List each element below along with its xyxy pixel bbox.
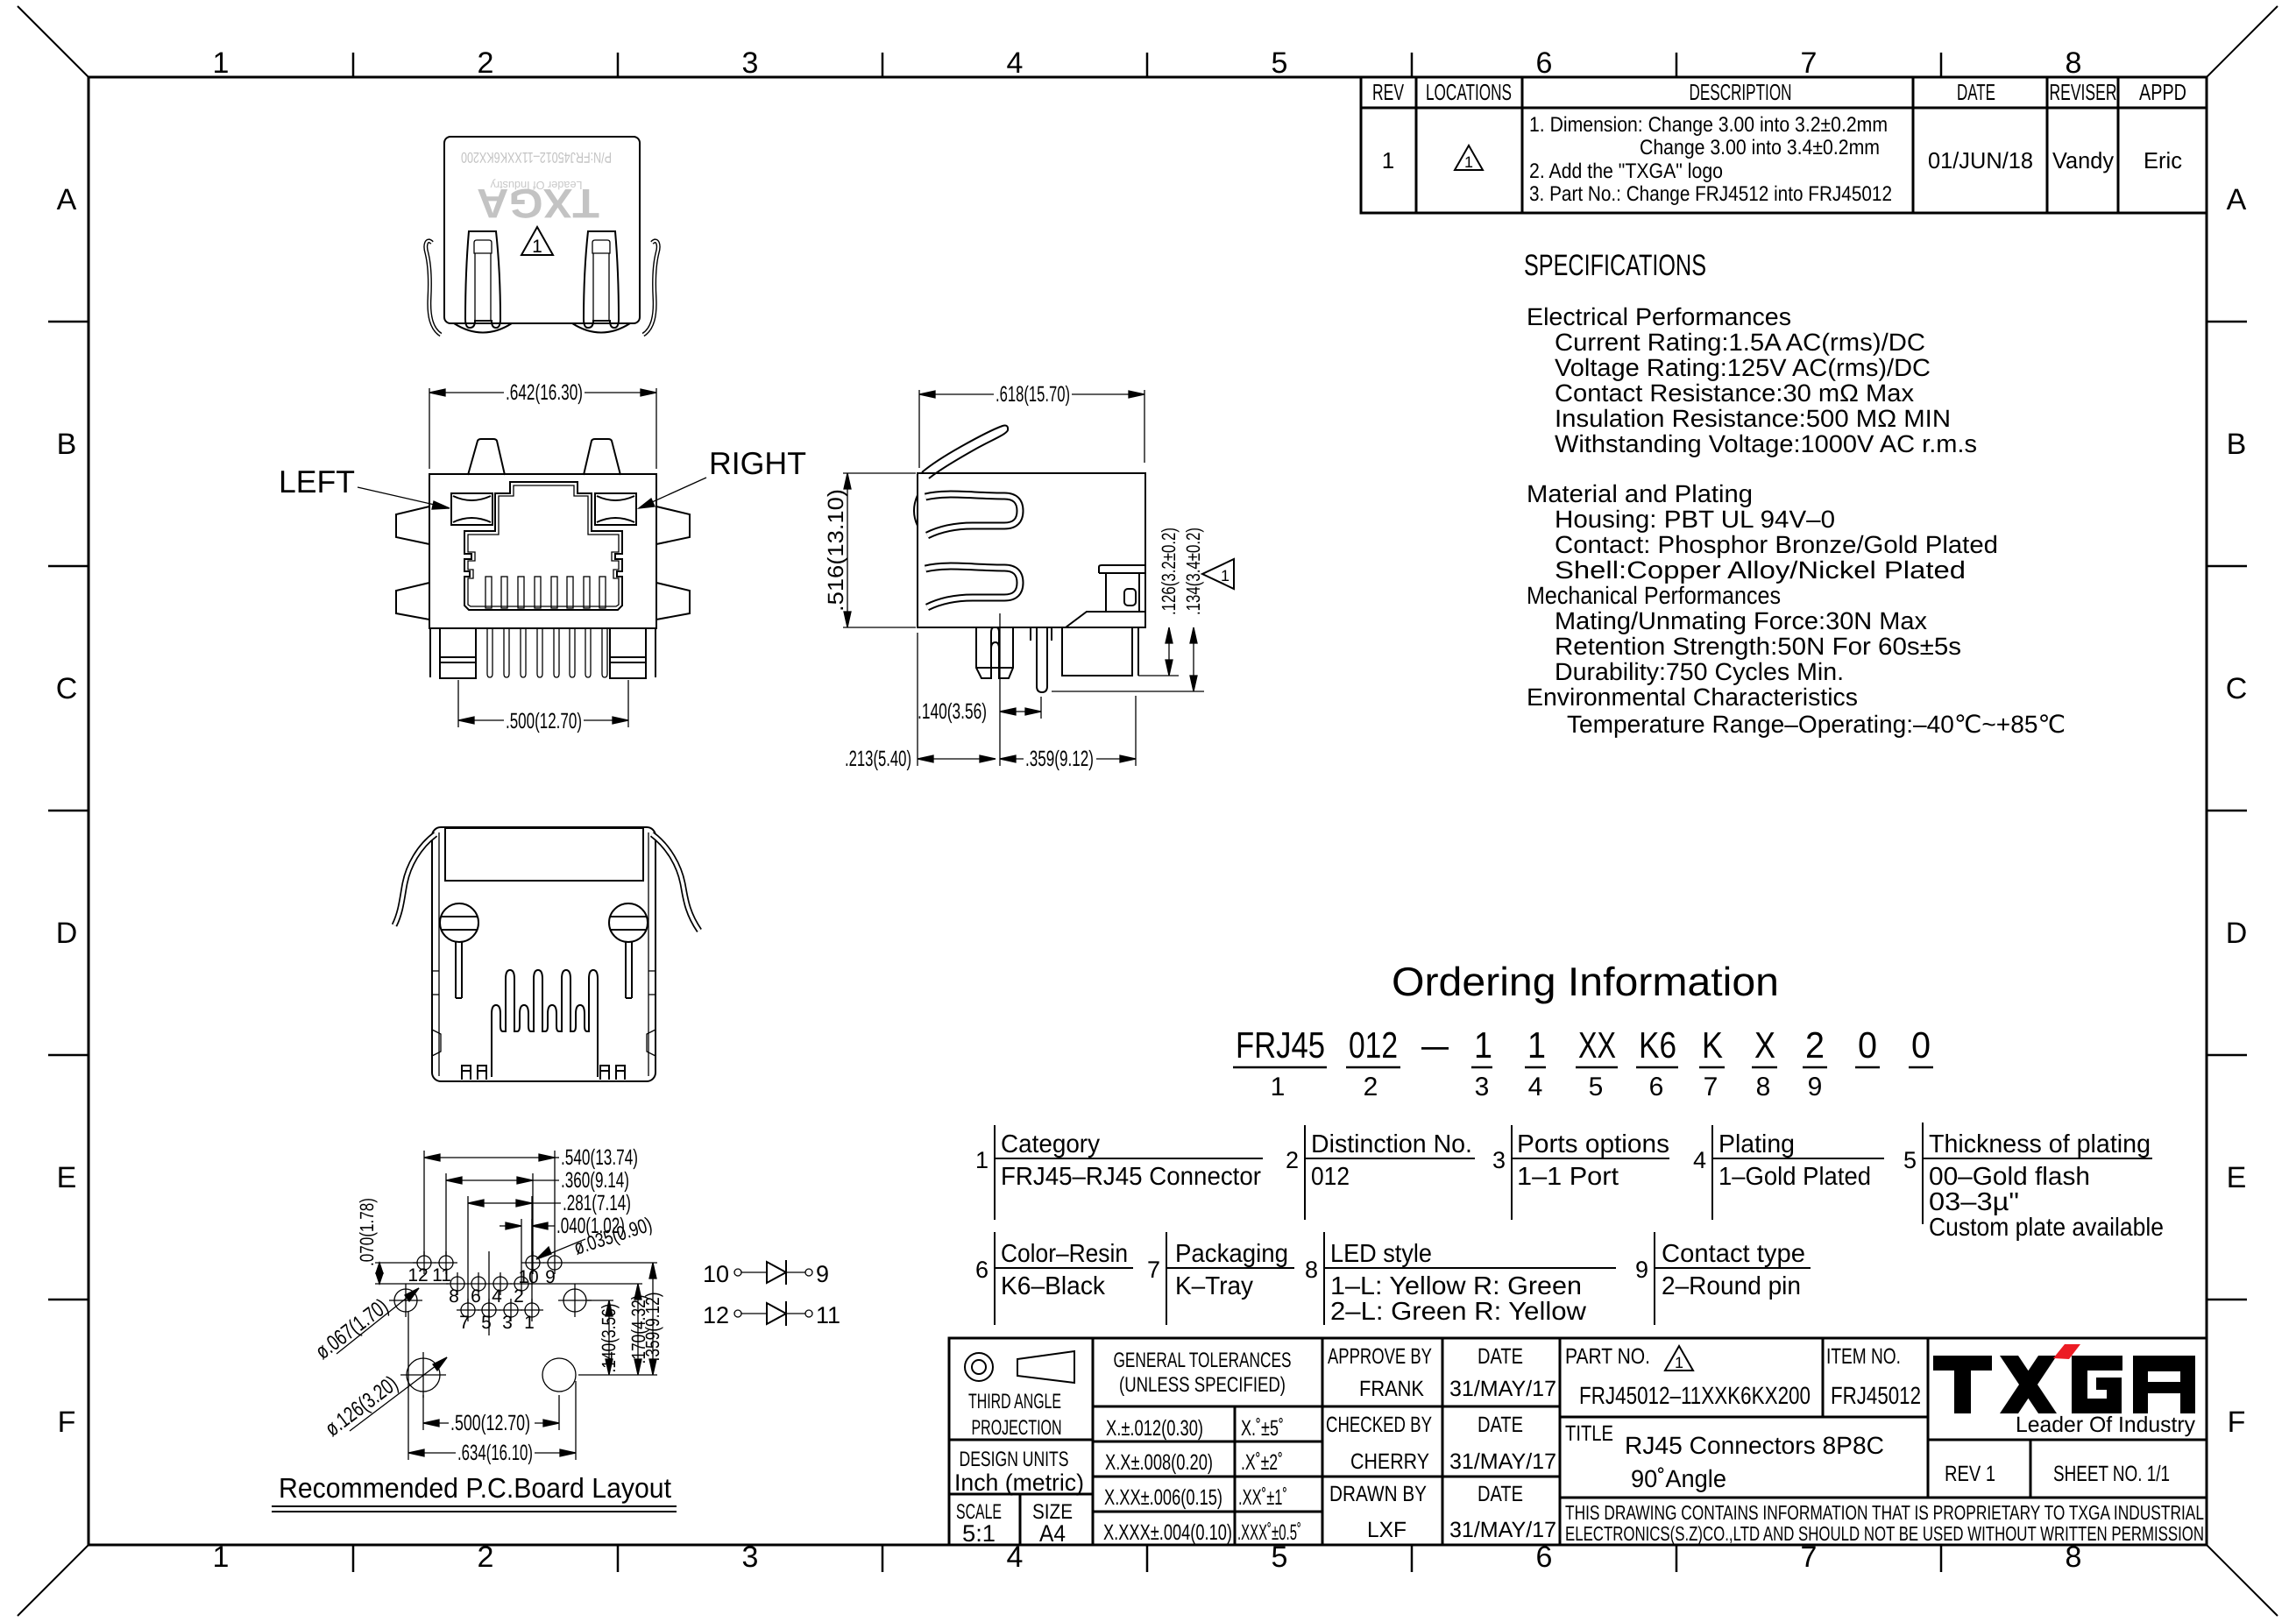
svg-text:Thickness of plating: Thickness of plating bbox=[1929, 1130, 2151, 1158]
svg-text:Inch (metric): Inch (metric) bbox=[954, 1470, 1084, 1496]
svg-text:X.XX±.006(0.15): X.XX±.006(0.15) bbox=[1104, 1485, 1222, 1510]
svg-text:8: 8 bbox=[1305, 1257, 1318, 1283]
screw posts bbox=[440, 903, 648, 998]
svg-text:PROJECTION: PROJECTION bbox=[972, 1416, 1062, 1440]
svg-text:K6: K6 bbox=[1639, 1024, 1676, 1066]
svg-text:Vandy: Vandy bbox=[2052, 147, 2114, 174]
dims .126/.134 bbox=[1052, 627, 1204, 691]
svg-text:6: 6 bbox=[1649, 1073, 1664, 1101]
svg-text:Mating/Unmating Force:30N Max: Mating/Unmating Force:30N Max bbox=[1555, 607, 1927, 634]
svg-text:Packaging: Packaging bbox=[1175, 1240, 1288, 1268]
svg-text:3: 3 bbox=[1475, 1073, 1490, 1101]
svg-text:FRJ45012: FRJ45012 bbox=[1831, 1382, 1921, 1409]
svg-text:REV 1: REV 1 bbox=[1945, 1462, 1995, 1486]
svg-text:F: F bbox=[58, 1406, 76, 1439]
svg-text:0: 0 bbox=[1858, 1024, 1877, 1066]
svg-text:2–Round pin: 2–Round pin bbox=[1662, 1272, 1801, 1300]
dim .618(15.70) bbox=[919, 390, 1144, 468]
svg-text:1: 1 bbox=[1271, 1073, 1286, 1101]
svg-text:10: 10 bbox=[703, 1261, 729, 1287]
medium holes bbox=[389, 1284, 592, 1317]
svg-text:31/MAY/17: 31/MAY/17 bbox=[1449, 1518, 1556, 1542]
svg-text:Housing: PBT UL 94V–0: Housing: PBT UL 94V–0 bbox=[1555, 506, 1835, 533]
svg-text:LEFT: LEFT bbox=[279, 464, 355, 499]
svg-text:9: 9 bbox=[1635, 1257, 1648, 1283]
svg-text:Retention Strength:50N For 60s: Retention Strength:50N For 60s±5s bbox=[1555, 633, 1961, 660]
svg-text:TXGA: TXGA bbox=[477, 181, 599, 227]
svg-text:K6–Black: K6–Black bbox=[1001, 1272, 1105, 1300]
svg-text:RJ45 Connectors 8P8C: RJ45 Connectors 8P8C bbox=[1625, 1432, 1884, 1459]
left latch bbox=[454, 231, 512, 333]
svg-text:X: X bbox=[1754, 1024, 1775, 1066]
svg-text:Custom plate available: Custom plate available bbox=[1929, 1214, 2164, 1242]
svg-text:2: 2 bbox=[478, 1541, 494, 1574]
svg-text:1: 1 bbox=[532, 237, 542, 257]
svg-text:00–Gold flash: 00–Gold flash bbox=[1929, 1163, 2090, 1191]
svg-text:.642(16.30): .642(16.30) bbox=[506, 380, 583, 405]
svg-text:31/MAY/17: 31/MAY/17 bbox=[1449, 1449, 1556, 1474]
svg-text:7: 7 bbox=[1801, 46, 1818, 80]
bottom right block bbox=[1062, 627, 1138, 676]
comb with pins bbox=[492, 970, 598, 1077]
svg-text:7: 7 bbox=[1704, 1073, 1718, 1101]
svg-text:2: 2 bbox=[1805, 1024, 1825, 1066]
svg-text:GENERAL TOLERANCES: GENERAL TOLERANCES bbox=[1114, 1349, 1292, 1372]
svg-text:C: C bbox=[2226, 672, 2248, 705]
svg-text:DATE: DATE bbox=[1478, 1413, 1523, 1437]
bottom view of RJ45 connector bbox=[394, 827, 699, 1081]
svg-text:3: 3 bbox=[742, 1541, 759, 1574]
top mounting bumps bbox=[468, 439, 505, 475]
rear latch detail bbox=[1066, 565, 1145, 627]
svg-text:03–3µ": 03–3µ" bbox=[1929, 1188, 2019, 1216]
dim .500(12.70) bbox=[458, 680, 628, 727]
svg-text:X.X±.008(0.20): X.X±.008(0.20) bbox=[1105, 1450, 1213, 1475]
specifications block bbox=[1524, 249, 2066, 738]
centerline bbox=[999, 613, 1001, 766]
svg-text:2: 2 bbox=[1286, 1147, 1299, 1173]
svg-text:1–L: Yellow R: Green: 1–L: Yellow R: Green bbox=[1330, 1272, 1582, 1300]
top spring wire bbox=[922, 426, 1008, 478]
svg-text:2–L: Green R: Yellow: 2–L: Green R: Yellow bbox=[1330, 1298, 1587, 1326]
svg-text:DRAWN BY: DRAWN BY bbox=[1329, 1482, 1427, 1506]
right spring wire bbox=[643, 241, 658, 335]
svg-text:4: 4 bbox=[1693, 1147, 1706, 1173]
svg-text:5: 5 bbox=[1272, 46, 1288, 80]
svg-text:X.±.012(0.30): X.±.012(0.30) bbox=[1106, 1416, 1203, 1441]
svg-text:.213(5.40): .213(5.40) bbox=[845, 747, 911, 771]
svg-text:REV: REV bbox=[1372, 79, 1404, 105]
svg-text:REVISER: REVISER bbox=[2050, 79, 2117, 105]
pin comb slots bbox=[485, 577, 606, 608]
svg-text:3: 3 bbox=[502, 1313, 513, 1333]
diode D2 12-11 bbox=[734, 1301, 812, 1326]
svg-text:5: 5 bbox=[1903, 1147, 1917, 1173]
svg-text:Change 3.00 into 3.4±0.2mm: Change 3.00 into 3.4±0.2mm bbox=[1640, 136, 1880, 159]
svg-text:1: 1 bbox=[524, 1313, 535, 1333]
svg-text:Recommended P.C.Board Layout: Recommended P.C.Board Layout bbox=[279, 1472, 671, 1504]
svg-text:1: 1 bbox=[213, 1541, 230, 1574]
svg-text:FRJ45012–11XXK6KX200: FRJ45012–11XXK6KX200 bbox=[1579, 1382, 1811, 1409]
svg-text:.634(16.10): .634(16.10) bbox=[457, 1441, 533, 1465]
svg-text:THIS DRAWING CONTAINS INFORMAT: THIS DRAWING CONTAINS INFORMATION THAT I… bbox=[1565, 1501, 2204, 1524]
locations triangle 1 bbox=[1455, 145, 1483, 170]
bottom pins bbox=[487, 628, 607, 677]
left spring wire bbox=[426, 241, 441, 335]
top view of RJ45 connector bbox=[426, 137, 658, 335]
dia .067(1.70) leader bbox=[337, 1288, 419, 1354]
bottom legs bbox=[430, 628, 655, 678]
diode D1 10-9 bbox=[734, 1260, 812, 1285]
svg-text:012: 012 bbox=[1311, 1163, 1350, 1191]
svg-text:Environmental Characteristics: Environmental Characteristics bbox=[1527, 684, 1858, 711]
dim .213(5.40) and .359(9.12) bbox=[918, 633, 1136, 766]
svg-text:2: 2 bbox=[514, 1286, 524, 1307]
svg-text:5: 5 bbox=[481, 1313, 492, 1333]
svg-text:1: 1 bbox=[975, 1147, 989, 1173]
svg-text:4: 4 bbox=[1528, 1073, 1543, 1101]
svg-text:A: A bbox=[2227, 183, 2247, 216]
svg-text:B: B bbox=[57, 428, 77, 461]
svg-text:.359(9.12): .359(9.12) bbox=[641, 1293, 663, 1362]
pin holes row B (8 6 4 2) bbox=[446, 1272, 533, 1295]
ordering information bbox=[1233, 959, 1933, 1101]
svg-text:Ports options: Ports options bbox=[1517, 1130, 1669, 1158]
dim .540(13.74) bbox=[424, 1151, 559, 1256]
dim .040(1.02) bbox=[500, 1219, 555, 1303]
svg-text:ITEM NO.: ITEM NO. bbox=[1826, 1344, 1901, 1369]
svg-text:Contact type: Contact type bbox=[1662, 1240, 1805, 1268]
svg-text:Temperature Range–Operating:–4: Temperature Range–Operating:–40℃~+85℃ bbox=[1567, 711, 2066, 738]
svg-text:DATE: DATE bbox=[1957, 79, 1995, 105]
svg-text:Mechanical Performances: Mechanical Performances bbox=[1527, 582, 1781, 609]
svg-text:(UNLESS SPECIFIED): (UNLESS SPECIFIED) bbox=[1119, 1373, 1286, 1397]
svg-text:Plating: Plating bbox=[1718, 1130, 1795, 1158]
svg-text:Withstanding Voltage:1000V AC: Withstanding Voltage:1000V AC r.m.s bbox=[1555, 430, 1977, 457]
svg-text:6: 6 bbox=[471, 1286, 481, 1307]
LED window right bbox=[595, 493, 636, 525]
svg-text:1: 1 bbox=[1464, 153, 1473, 171]
svg-text:.XX˚±1˚: .XX˚±1˚ bbox=[1238, 1485, 1287, 1510]
svg-text:2: 2 bbox=[1364, 1073, 1378, 1101]
right latch bbox=[572, 231, 630, 333]
svg-text:Color–Resin: Color–Resin bbox=[1001, 1240, 1128, 1268]
bottom round pin bbox=[1031, 627, 1052, 692]
svg-text:E: E bbox=[2227, 1161, 2247, 1194]
svg-text:Contact: Phosphor Bronze/Gold: Contact: Phosphor Bronze/Gold Plated bbox=[1555, 531, 1998, 558]
dim .634(16.10) bbox=[408, 1312, 576, 1460]
pin holes row A (12 11 10 9) bbox=[413, 1251, 566, 1274]
svg-text:DESCRIPTION: DESCRIPTION bbox=[1690, 79, 1792, 105]
side view of RJ45 connector bbox=[824, 382, 1234, 771]
svg-text:.360(9.14): .360(9.14) bbox=[561, 1168, 629, 1193]
dim .516(13.10) bbox=[843, 473, 916, 627]
svg-text:4: 4 bbox=[492, 1286, 502, 1307]
svg-text:1–Gold Plated: 1–Gold Plated bbox=[1718, 1163, 1871, 1191]
svg-text:1: 1 bbox=[1675, 1354, 1683, 1371]
svg-text:F: F bbox=[2228, 1406, 2246, 1439]
svg-text:6: 6 bbox=[975, 1257, 989, 1283]
svg-text:1: 1 bbox=[1474, 1024, 1492, 1066]
svg-text:E: E bbox=[57, 1161, 77, 1194]
TXGA logo bbox=[1933, 1344, 2195, 1413]
svg-text:11: 11 bbox=[816, 1302, 840, 1328]
svg-text:Material and Plating: Material and Plating bbox=[1527, 480, 1753, 507]
svg-text:11: 11 bbox=[432, 1265, 451, 1286]
svg-text:K–Tray: K–Tray bbox=[1175, 1272, 1253, 1300]
svg-text:.XXX˚±0.5˚: .XXX˚±0.5˚ bbox=[1237, 1520, 1301, 1545]
svg-text:1: 1 bbox=[1221, 567, 1229, 584]
svg-text:.134(3.4±0.2): .134(3.4±0.2) bbox=[1182, 528, 1204, 615]
LED window left bbox=[451, 493, 493, 525]
svg-text:DATE: DATE bbox=[1478, 1344, 1523, 1369]
dim .500(12.70) bbox=[423, 1395, 559, 1430]
svg-text:Eric: Eric bbox=[2144, 147, 2182, 174]
svg-text:X.XXX±.004(0.10): X.XXX±.004(0.10) bbox=[1103, 1520, 1232, 1545]
svg-text:9: 9 bbox=[816, 1261, 829, 1287]
dia .126(3.20) leader bbox=[350, 1357, 447, 1431]
dim .281(7.14) bbox=[468, 1196, 561, 1303]
svg-text:01/JUN/18: 01/JUN/18 bbox=[1928, 147, 2033, 174]
svg-text:K: K bbox=[1702, 1024, 1723, 1066]
svg-text:P/N:FRJ45012–11XXK6KX200: P/N:FRJ45012–11XXK6KX200 bbox=[461, 149, 612, 166]
svg-text:SHEET NO. 1/1: SHEET NO. 1/1 bbox=[2053, 1462, 2170, 1486]
svg-text:31/MAY/17: 31/MAY/17 bbox=[1449, 1377, 1556, 1401]
svg-text:C: C bbox=[56, 672, 78, 705]
third angle projection icon bbox=[965, 1353, 993, 1381]
svg-text:5: 5 bbox=[1589, 1073, 1604, 1101]
svg-text:9: 9 bbox=[1808, 1073, 1823, 1101]
svg-text:6: 6 bbox=[1536, 46, 1553, 80]
svg-text:D: D bbox=[2226, 917, 2248, 950]
svg-text:B: B bbox=[2227, 428, 2247, 461]
svg-text:1. Dimension: Change 3.00 into: 1. Dimension: Change 3.00 into 3.2±0.2mm bbox=[1529, 113, 1888, 137]
svg-text:Shell:Copper Alloy/Nickel Plat: Shell:Copper Alloy/Nickel Plated bbox=[1555, 556, 1966, 584]
svg-text:X.˚±5˚: X.˚±5˚ bbox=[1241, 1416, 1284, 1441]
left wire bbox=[394, 834, 436, 925]
svg-text:FRJ45: FRJ45 bbox=[1236, 1024, 1325, 1066]
svg-text:APPD: APPD bbox=[2139, 79, 2186, 105]
svg-text:2: 2 bbox=[478, 46, 494, 80]
svg-text:THIRD ANGLE: THIRD ANGLE bbox=[968, 1390, 1061, 1413]
svg-text:8: 8 bbox=[1756, 1073, 1771, 1101]
svg-text:.126(3.2±0.2): .126(3.2±0.2) bbox=[1158, 528, 1180, 615]
svg-text:3: 3 bbox=[1492, 1147, 1506, 1173]
svg-text:.500(12.70): .500(12.70) bbox=[450, 1411, 530, 1435]
dia .035(0.90) leader bbox=[536, 1239, 585, 1259]
svg-text:8: 8 bbox=[2066, 46, 2082, 80]
arc on left edge bbox=[914, 495, 918, 526]
svg-text:TITLE: TITLE bbox=[1565, 1421, 1613, 1446]
svg-text:CHECKED BY: CHECKED BY bbox=[1326, 1413, 1432, 1437]
edge notches bbox=[432, 971, 655, 1056]
svg-text:LOCATIONS: LOCATIONS bbox=[1426, 79, 1512, 105]
svg-text:Contact Resistance:30 mΩ Max: Contact Resistance:30 mΩ Max bbox=[1555, 379, 1914, 407]
bottom U leg bbox=[976, 627, 1013, 678]
svg-text:XX: XX bbox=[1578, 1024, 1616, 1066]
svg-text:2. Add the "TXGA" logo: 2. Add the "TXGA" logo bbox=[1529, 159, 1723, 183]
svg-text:.359(9.12): .359(9.12) bbox=[1025, 747, 1094, 771]
svg-text:FRJ45–RJ45 Connector: FRJ45–RJ45 Connector bbox=[1001, 1163, 1261, 1191]
svg-text:0: 0 bbox=[1911, 1024, 1931, 1066]
svg-text:.140(3.56): .140(3.56) bbox=[918, 699, 987, 724]
svg-text:DESIGN UNITS: DESIGN UNITS bbox=[960, 1448, 1069, 1471]
svg-text:Current Rating:1.5A AC(rms)/DC: Current Rating:1.5A AC(rms)/DC bbox=[1555, 329, 1925, 356]
svg-text:Ordering Information: Ordering Information bbox=[1392, 959, 1779, 1004]
svg-text:.140(3.56): .140(3.56) bbox=[598, 1304, 620, 1373]
svg-text:.516(13.10): .516(13.10) bbox=[824, 489, 848, 612]
big holes bbox=[400, 1352, 576, 1398]
svg-text:APPROVE BY: APPROVE BY bbox=[1328, 1344, 1432, 1369]
svg-text:RIGHT: RIGHT bbox=[709, 445, 806, 481]
svg-text:.281(7.14): .281(7.14) bbox=[563, 1191, 631, 1215]
recommended PC board layout bbox=[272, 1145, 677, 1512]
front view of RJ45 connector bbox=[279, 380, 806, 733]
dim .070(1.78) bbox=[375, 1263, 449, 1284]
vertical dims .140 .170 .359 bbox=[529, 1263, 657, 1375]
svg-text:Distinction No.: Distinction No. bbox=[1311, 1130, 1472, 1158]
svg-text:Voltage Rating:125V AC(rms)/DC: Voltage Rating:125V AC(rms)/DC bbox=[1555, 354, 1931, 381]
svg-text:12: 12 bbox=[407, 1265, 428, 1286]
triangle 1 marker bbox=[521, 227, 553, 255]
svg-text:7: 7 bbox=[459, 1313, 470, 1333]
bottom feet bbox=[462, 1066, 625, 1080]
svg-text:ELECTRONICS(S.Z)CO.,LTD AND SH: ELECTRONICS(S.Z)CO.,LTD AND SHOULD NOT B… bbox=[1565, 1522, 2204, 1545]
svg-text:1: 1 bbox=[1527, 1024, 1546, 1066]
socket opening outer bbox=[464, 482, 622, 610]
svg-text:1–1 Port: 1–1 Port bbox=[1517, 1163, 1619, 1191]
svg-text:.500(12.70): .500(12.70) bbox=[506, 709, 582, 733]
svg-text:A: A bbox=[57, 183, 77, 216]
svg-text:7: 7 bbox=[1147, 1257, 1160, 1283]
svg-text:3: 3 bbox=[742, 46, 759, 80]
title block bbox=[949, 1338, 2207, 1547]
svg-text:SPECIFICATIONS: SPECIFICATIONS bbox=[1524, 249, 1706, 282]
lower spring contact (U) bbox=[925, 566, 1020, 607]
side wings bbox=[396, 506, 429, 544]
svg-text:DATE: DATE bbox=[1478, 1482, 1523, 1506]
svg-text:90˚Angle: 90˚Angle bbox=[1631, 1465, 1726, 1492]
svg-text:LED style: LED style bbox=[1330, 1240, 1432, 1268]
svg-text:LXF: LXF bbox=[1367, 1518, 1407, 1542]
svg-text:12: 12 bbox=[703, 1302, 729, 1328]
centerline bbox=[488, 1251, 490, 1335]
pin holes row C (7 5 3 1) bbox=[457, 1299, 543, 1321]
svg-text:1: 1 bbox=[1382, 147, 1394, 174]
dim .360(9.14) bbox=[446, 1173, 559, 1256]
svg-text:Category: Category bbox=[1001, 1130, 1100, 1158]
svg-text:1: 1 bbox=[213, 46, 230, 80]
svg-text:.540(13.74): .540(13.74) bbox=[561, 1145, 638, 1170]
svg-text:FRANK: FRANK bbox=[1359, 1377, 1424, 1401]
svg-text:.618(15.70): .618(15.70) bbox=[996, 382, 1070, 407]
svg-text:—: — bbox=[1421, 1024, 1449, 1066]
dim .642(16.30) bbox=[429, 388, 656, 469]
svg-text:PART NO.: PART NO. bbox=[1565, 1344, 1650, 1369]
svg-text:Insulation Resistance:500 MΩ: Insulation Resistance:500 MΩ MIN bbox=[1555, 405, 1951, 432]
svg-text:8: 8 bbox=[449, 1286, 459, 1307]
pin number labels bbox=[407, 1265, 556, 1333]
svg-text:A4: A4 bbox=[1039, 1520, 1066, 1547]
svg-text:Durability:750 Cycles Min.: Durability:750 Cycles Min. bbox=[1555, 658, 1844, 685]
svg-text:4: 4 bbox=[1007, 46, 1024, 80]
svg-text:D: D bbox=[56, 917, 78, 950]
LED diodes schematic bbox=[703, 1260, 840, 1328]
svg-text:012: 012 bbox=[1349, 1024, 1398, 1066]
svg-text:5:1: 5:1 bbox=[962, 1520, 996, 1547]
dim .140(3.56) bbox=[1000, 697, 1041, 719]
revision table bbox=[1361, 77, 2207, 213]
socket opening inner line bbox=[468, 485, 619, 606]
svg-text:CHERRY: CHERRY bbox=[1350, 1449, 1429, 1474]
right wire bbox=[652, 834, 699, 931]
upper spring contact (U) bbox=[925, 494, 1020, 535]
svg-text:Electrical Performances: Electrical Performances bbox=[1527, 303, 1791, 330]
svg-text:.X˚±2˚: .X˚±2˚ bbox=[1241, 1450, 1283, 1475]
svg-text:Leader Of Industry: Leader Of Industry bbox=[2016, 1413, 2195, 1437]
svg-text:3. Part No.: Change FRJ4512 in: 3. Part No.: Change FRJ4512 into FRJ4501… bbox=[1529, 182, 1892, 206]
triangle marker 1 bbox=[1202, 559, 1234, 589]
svg-text:.070(1.78): .070(1.78) bbox=[356, 1198, 378, 1266]
ordering legend table bbox=[975, 1123, 2164, 1326]
body outline bbox=[429, 474, 656, 628]
